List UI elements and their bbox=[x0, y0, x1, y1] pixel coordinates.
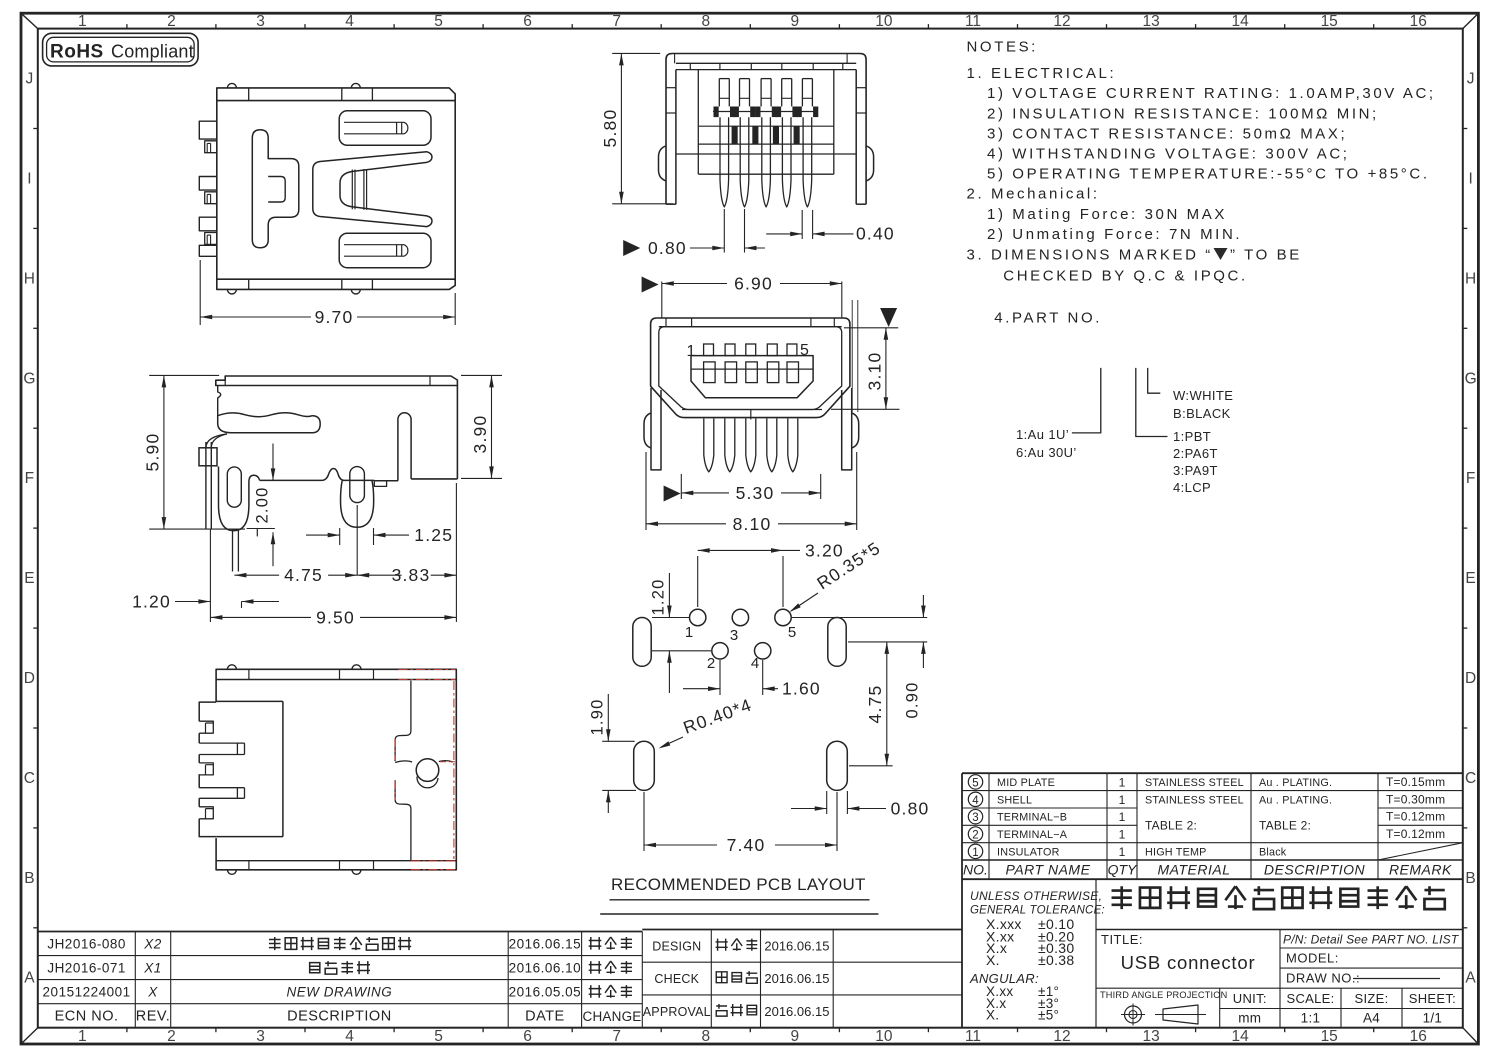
svg-text:C: C bbox=[1465, 770, 1476, 787]
svg-text:X.: X. bbox=[986, 1008, 999, 1023]
dimension 6.90 bbox=[642, 277, 659, 293]
dimension 9.50 bbox=[455, 483, 457, 622]
svg-text:10: 10 bbox=[875, 13, 893, 30]
svg-text:J: J bbox=[1467, 71, 1475, 88]
view: connector bottom view bbox=[216, 669, 456, 870]
svg-text:DATE: DATE bbox=[525, 1009, 565, 1025]
pcb oval pad bottom-left bbox=[634, 741, 655, 790]
svg-text:11: 11 bbox=[965, 13, 981, 30]
svg-text:I: I bbox=[1468, 171, 1472, 188]
svg-text:H: H bbox=[1465, 270, 1476, 287]
frame row ticks left/right bbox=[33, 128, 38, 130]
revision table bbox=[38, 931, 643, 933]
svg-text:MODEL:: MODEL: bbox=[1286, 951, 1339, 966]
svg-text:1: 1 bbox=[1119, 845, 1126, 859]
svg-text:SIZE:: SIZE: bbox=[1354, 991, 1388, 1006]
pcb hole 2 bbox=[712, 643, 728, 659]
svg-text:15: 15 bbox=[1321, 1028, 1338, 1045]
svg-text:3: 3 bbox=[256, 1028, 265, 1045]
svg-text:P/N: Detail See PART NO. L: P/N: Detail See PART NO. LIST bbox=[1283, 933, 1460, 947]
svg-text:I: I bbox=[27, 171, 31, 188]
svg-text:INSULATOR: INSULATOR bbox=[997, 846, 1060, 858]
svg-text:6.90: 6.90 bbox=[734, 274, 773, 294]
svg-text:9: 9 bbox=[790, 1028, 799, 1045]
svg-text:REMARK: REMARK bbox=[1389, 862, 1452, 878]
svg-text:3: 3 bbox=[972, 812, 978, 824]
svg-text:±5°: ±5° bbox=[1038, 1008, 1059, 1023]
svg-text:UNLESS OTHERWISE,: UNLESS OTHERWISE, bbox=[970, 889, 1102, 903]
svg-text:PART NAME: PART NAME bbox=[1006, 862, 1091, 878]
dimension 0.90 bbox=[791, 617, 927, 619]
svg-text:5: 5 bbox=[972, 777, 978, 789]
svg-text:1:Au 1U’: 1:Au 1U’ bbox=[1016, 427, 1069, 442]
svg-text:JH2016-071: JH2016-071 bbox=[47, 961, 126, 976]
svg-text:0.80: 0.80 bbox=[891, 799, 930, 819]
svg-text:5) OPERATING TEMPERATURE:-55°C: 5) OPERATING TEMPERATURE:-55°C TO +85°C. bbox=[987, 166, 1430, 183]
svg-text:3.83: 3.83 bbox=[392, 565, 431, 585]
svg-text:20151224001: 20151224001 bbox=[43, 985, 131, 1000]
svg-text:1.20: 1.20 bbox=[132, 592, 171, 612]
pcb hole 4 bbox=[755, 643, 771, 659]
svg-text:3. DIMENSIONS MARKED “: 3. DIMENSIONS MARKED “ bbox=[967, 246, 1213, 263]
svg-text:0.90: 0.90 bbox=[904, 682, 922, 719]
svg-text:2016.05.05: 2016.05.05 bbox=[509, 985, 582, 1000]
svg-text:9.50: 9.50 bbox=[316, 607, 355, 627]
svg-text:NOTES:: NOTES: bbox=[967, 39, 1038, 56]
svg-text:USB connector: USB connector bbox=[1121, 952, 1256, 973]
svg-text:RoHS: RoHS bbox=[50, 42, 104, 63]
dimension 0.80 (pcb) bbox=[826, 791, 828, 814]
svg-text:2) Unmating Force: 7N MIN.: 2) Unmating Force: 7N MIN. bbox=[987, 226, 1242, 243]
svg-text:4.75: 4.75 bbox=[865, 685, 885, 724]
svg-text:3:PA9T: 3:PA9T bbox=[1173, 463, 1218, 478]
svg-text:2016.06.15: 2016.06.15 bbox=[764, 1004, 829, 1019]
svg-text:3: 3 bbox=[256, 13, 265, 30]
svg-text:4: 4 bbox=[972, 795, 979, 807]
svg-text:15: 15 bbox=[1321, 13, 1338, 30]
checked-dimension triangle glyph in note 3 bbox=[1214, 248, 1228, 260]
svg-text:APPROVAL: APPROVAL bbox=[643, 1005, 711, 1019]
svg-text:TABLE 2:: TABLE 2: bbox=[1145, 818, 1197, 832]
svg-text:1/1: 1/1 bbox=[1423, 1011, 1443, 1026]
pcb oval pad top-left bbox=[633, 618, 651, 667]
tolerance box bbox=[1095, 879, 1097, 1027]
svg-text:3.90: 3.90 bbox=[470, 415, 490, 454]
svg-text:F: F bbox=[1466, 470, 1475, 487]
svg-text:2) INSULATION RESISTANCE: 100M: 2) INSULATION RESISTANCE: 100MΩ MIN; bbox=[987, 105, 1379, 122]
svg-text:5: 5 bbox=[788, 624, 796, 641]
svg-text:4: 4 bbox=[345, 13, 354, 30]
label R0.40*4 bbox=[681, 694, 755, 737]
svg-text:STAINLESS STEEL: STAINLESS STEEL bbox=[1145, 777, 1244, 789]
part number legend tree bbox=[1072, 368, 1101, 433]
title block bbox=[1095, 879, 1097, 1027]
svg-text:REV.: REV. bbox=[136, 1009, 171, 1025]
svg-text:CHANGE: CHANGE bbox=[583, 1009, 642, 1024]
svg-text:B: B bbox=[1465, 870, 1475, 887]
svg-text:5: 5 bbox=[434, 13, 443, 30]
svg-text:4: 4 bbox=[345, 1028, 354, 1045]
svg-text:6: 6 bbox=[523, 13, 532, 30]
svg-text:11: 11 bbox=[965, 1028, 981, 1045]
dimension 0.40 (pin width) bbox=[801, 210, 803, 239]
pcb oval pad bottom-right bbox=[827, 741, 848, 790]
label R0.35*5 bbox=[813, 538, 884, 594]
svg-text:DESCRIPTION: DESCRIPTION bbox=[1264, 862, 1366, 878]
svg-text:SHELL: SHELL bbox=[997, 794, 1032, 806]
svg-text:2016.06.15: 2016.06.15 bbox=[764, 971, 829, 986]
svg-text:1: 1 bbox=[972, 847, 978, 859]
pcb hole 5 bbox=[775, 609, 791, 625]
svg-text:E: E bbox=[24, 570, 34, 587]
dimension 0.80 (pin pitch) bbox=[723, 209, 725, 253]
svg-text:D: D bbox=[24, 670, 35, 687]
parts list table bbox=[962, 772, 1463, 774]
svg-text:7: 7 bbox=[612, 13, 621, 30]
dimension 1.20 (pcb) bbox=[668, 573, 670, 618]
svg-text:B:BLACK: B:BLACK bbox=[1173, 406, 1231, 421]
svg-text:2016.06.15: 2016.06.15 bbox=[764, 938, 829, 953]
svg-text:A: A bbox=[24, 970, 35, 987]
svg-text:T=0.30mm: T=0.30mm bbox=[1386, 792, 1445, 806]
svg-text:X: X bbox=[147, 985, 158, 1000]
dimension 5.30 bbox=[664, 486, 681, 502]
svg-text:7: 7 bbox=[612, 1028, 621, 1045]
svg-text:T=0.15mm: T=0.15mm bbox=[1386, 775, 1445, 789]
pcb oval pad top-right bbox=[828, 618, 846, 667]
revision table chinese descriptions bbox=[269, 937, 281, 950]
svg-text:5.80: 5.80 bbox=[600, 109, 620, 148]
svg-text:A: A bbox=[1465, 970, 1476, 987]
svg-text:MATERIAL: MATERIAL bbox=[1158, 862, 1231, 878]
svg-text:R0.40*4: R0.40*4 bbox=[681, 694, 755, 737]
dimension 8.10 bbox=[645, 452, 647, 530]
svg-text:1.25: 1.25 bbox=[414, 525, 453, 545]
svg-text:2: 2 bbox=[707, 655, 715, 672]
svg-text:12: 12 bbox=[1053, 1028, 1070, 1045]
svg-text:1: 1 bbox=[1119, 775, 1126, 789]
svg-text:Au . PLATING.: Au . PLATING. bbox=[1259, 794, 1332, 806]
svg-text:8: 8 bbox=[701, 13, 710, 30]
svg-text:1: 1 bbox=[1119, 810, 1126, 824]
svg-text:±0.38: ±0.38 bbox=[1038, 952, 1074, 968]
dimension 4.75 (pcb) bbox=[848, 641, 927, 643]
svg-text:4:LCP: 4:LCP bbox=[1173, 480, 1211, 495]
svg-text:1: 1 bbox=[686, 343, 696, 360]
svg-text:MID PLATE: MID PLATE bbox=[997, 777, 1055, 789]
svg-text:H: H bbox=[24, 270, 35, 287]
svg-text:7.40: 7.40 bbox=[727, 835, 766, 855]
RoHS Compliant label box bbox=[43, 33, 199, 66]
svg-text:13: 13 bbox=[1142, 1028, 1159, 1045]
svg-text:1: 1 bbox=[685, 624, 693, 641]
svg-text:8.10: 8.10 bbox=[733, 514, 772, 534]
svg-text:1: 1 bbox=[78, 1028, 87, 1045]
svg-text:14: 14 bbox=[1231, 13, 1249, 30]
svg-text:5: 5 bbox=[800, 342, 810, 359]
view: connector top view bbox=[217, 88, 455, 101]
svg-text:1. ELECTRICAL:: 1. ELECTRICAL: bbox=[967, 65, 1117, 82]
svg-text:1:1: 1:1 bbox=[1301, 1011, 1321, 1026]
svg-text:DESIGN: DESIGN bbox=[652, 939, 701, 953]
svg-text:Black: Black bbox=[1259, 846, 1287, 858]
dimension 2.00 bbox=[272, 444, 274, 481]
svg-text:3.10: 3.10 bbox=[865, 352, 885, 391]
svg-text:2016.06.10: 2016.06.10 bbox=[509, 961, 582, 976]
view: connector rear view (pin side) bbox=[666, 54, 866, 205]
svg-text:0.40: 0.40 bbox=[856, 224, 895, 244]
svg-text:16: 16 bbox=[1410, 13, 1427, 30]
svg-text:0.80: 0.80 bbox=[648, 238, 687, 258]
svg-text:TITLE:: TITLE: bbox=[1101, 932, 1143, 947]
svg-text:1.90: 1.90 bbox=[589, 699, 607, 736]
svg-text:1) VOLTAGE CURRENT RATING: 1.0: 1) VOLTAGE CURRENT RATING: 1.0AMP,30V AC… bbox=[987, 85, 1436, 102]
svg-text:2: 2 bbox=[167, 13, 176, 30]
dimension 7.40 bbox=[643, 792, 645, 851]
svg-text:TERMINAL−A: TERMINAL−A bbox=[997, 829, 1068, 841]
svg-text:T=0.12mm: T=0.12mm bbox=[1386, 810, 1445, 824]
dimension 1.20 (side) bbox=[209, 529, 211, 622]
dimension 3.90 bbox=[461, 374, 502, 376]
svg-text:F: F bbox=[25, 470, 34, 487]
svg-text:HIGH TEMP: HIGH TEMP bbox=[1145, 846, 1207, 858]
svg-text:1.60: 1.60 bbox=[782, 679, 821, 699]
svg-text:X.: X. bbox=[986, 952, 1000, 968]
svg-text:TERMINAL−B: TERMINAL−B bbox=[997, 812, 1067, 824]
svg-text:mm: mm bbox=[1238, 1011, 1261, 1026]
svg-text:5: 5 bbox=[434, 1028, 443, 1045]
svg-text:5.30: 5.30 bbox=[736, 483, 775, 503]
svg-text:6: 6 bbox=[523, 1028, 532, 1045]
svg-text:X1: X1 bbox=[143, 961, 162, 976]
dimension 5.90 bbox=[149, 374, 219, 376]
svg-text:1: 1 bbox=[1119, 828, 1126, 842]
svg-text:9: 9 bbox=[790, 13, 799, 30]
svg-text:4.75: 4.75 bbox=[284, 565, 323, 585]
svg-text:1.20: 1.20 bbox=[650, 579, 668, 616]
svg-text:14: 14 bbox=[1231, 1028, 1249, 1045]
svg-text:16: 16 bbox=[1410, 1028, 1427, 1045]
svg-text:J: J bbox=[26, 71, 34, 88]
svg-text:4: 4 bbox=[751, 655, 759, 672]
svg-text:1: 1 bbox=[78, 13, 87, 30]
frame column ticks top/bottom bbox=[126, 24, 128, 29]
svg-text:NO.: NO. bbox=[963, 862, 988, 878]
company name (chinese) bbox=[1112, 886, 1132, 909]
svg-text:QTY: QTY bbox=[1108, 862, 1138, 878]
dimension 5.80 bbox=[612, 52, 660, 54]
svg-text:CHECK: CHECK bbox=[654, 972, 699, 986]
svg-text:5.90: 5.90 bbox=[143, 433, 163, 472]
svg-text:2: 2 bbox=[167, 1028, 176, 1045]
svg-text:A4: A4 bbox=[1363, 1011, 1380, 1026]
svg-text:3: 3 bbox=[730, 627, 738, 644]
svg-text:6:Au 30U’: 6:Au 30U’ bbox=[1016, 445, 1077, 460]
svg-text:10: 10 bbox=[875, 1028, 893, 1045]
svg-text:G: G bbox=[1465, 370, 1477, 387]
svg-text:T=0.12mm: T=0.12mm bbox=[1386, 827, 1445, 841]
svg-text:JH2016-080: JH2016-080 bbox=[47, 937, 126, 952]
design check approval table bbox=[642, 929, 962, 931]
svg-text:NEW DRAWING: NEW DRAWING bbox=[287, 985, 393, 1000]
svg-text:2.00: 2.00 bbox=[254, 487, 272, 524]
svg-text:C: C bbox=[24, 770, 35, 787]
hidden lines (red dash-dot) bbox=[399, 669, 456, 671]
svg-text:B: B bbox=[24, 870, 34, 887]
svg-text:1: 1 bbox=[1119, 793, 1126, 807]
svg-text:E: E bbox=[1465, 570, 1475, 587]
svg-text:GENERAL TOLERANCE:: GENERAL TOLERANCE: bbox=[970, 905, 1105, 917]
svg-text:13: 13 bbox=[1142, 13, 1159, 30]
svg-text:UNIT:: UNIT: bbox=[1233, 991, 1267, 1006]
svg-text:2016.06.15: 2016.06.15 bbox=[509, 937, 582, 952]
dimension 9.70 bbox=[199, 260, 201, 325]
svg-text:THIRD ANGLE PROJECTION: THIRD ANGLE PROJECTION bbox=[1100, 990, 1227, 1000]
svg-text:STAINLESS STEEL: STAINLESS STEEL bbox=[1145, 794, 1244, 806]
svg-text:G: G bbox=[23, 370, 35, 387]
svg-text:CHECKED BY Q.C & IPQC.: CHECKED BY Q.C & IPQC. bbox=[1003, 268, 1247, 285]
dimension 3.20 bbox=[697, 556, 699, 607]
pcb hole 1 bbox=[690, 609, 706, 625]
dimension 1.60 bbox=[719, 660, 721, 695]
svg-text:TABLE 2:: TABLE 2: bbox=[1259, 818, 1311, 832]
svg-text:RECOMMENDED PCB LAYOUT: RECOMMENDED PCB LAYOUT bbox=[611, 875, 866, 894]
svg-text:4.PART NO.: 4.PART NO. bbox=[994, 310, 1102, 327]
svg-text:Au . PLATING.: Au . PLATING. bbox=[1259, 777, 1332, 789]
svg-text:2. Mechanical:: 2. Mechanical: bbox=[967, 186, 1100, 203]
svg-text:X2: X2 bbox=[143, 937, 162, 952]
projection cone symbol bbox=[1163, 1005, 1198, 1024]
svg-text:SHEET:: SHEET: bbox=[1409, 991, 1456, 1006]
svg-text:DRAW NO.:: DRAW NO.: bbox=[1286, 971, 1360, 986]
svg-text:DESCRIPTION: DESCRIPTION bbox=[287, 1009, 392, 1025]
svg-text:1:PBT: 1:PBT bbox=[1173, 429, 1211, 444]
svg-text:” TO BE: ” TO BE bbox=[1230, 246, 1302, 263]
dimension 1.25 bbox=[339, 528, 341, 545]
svg-text:1) Mating Force: 30N MAX: 1) Mating Force: 30N MAX bbox=[987, 206, 1227, 223]
svg-text:ECN NO.: ECN NO. bbox=[55, 1009, 119, 1025]
svg-text:3) CONTACT RESISTANCE: 50mΩ MA: 3) CONTACT RESISTANCE: 50mΩ MAX; bbox=[987, 125, 1347, 142]
view: connector front view (mating face) bbox=[651, 318, 850, 418]
dimension 1.90 bbox=[602, 740, 635, 742]
svg-text:9.70: 9.70 bbox=[315, 307, 354, 327]
dimension 3.10 bbox=[880, 308, 897, 327]
pcb hole 3 bbox=[732, 609, 748, 625]
svg-text:2: 2 bbox=[972, 830, 978, 842]
view: connector side view bbox=[216, 376, 458, 386]
svg-text:W:WHITE: W:WHITE bbox=[1173, 388, 1233, 403]
dimension 4.75 and 3.83 bbox=[356, 505, 358, 575]
svg-text:4) WITHSTANDING VOLTAGE: 300V: 4) WITHSTANDING VOLTAGE: 300V AC; bbox=[987, 146, 1350, 163]
svg-text:Compliant: Compliant bbox=[111, 42, 194, 62]
frame corner diagonals bbox=[21, 13, 38, 28]
svg-text:SCALE:: SCALE: bbox=[1286, 991, 1334, 1006]
svg-text:2:PA6T: 2:PA6T bbox=[1173, 446, 1218, 461]
svg-text:12: 12 bbox=[1053, 13, 1070, 30]
svg-text:8: 8 bbox=[701, 1028, 710, 1045]
svg-text:3.20: 3.20 bbox=[805, 541, 844, 561]
svg-text:D: D bbox=[1465, 670, 1476, 687]
